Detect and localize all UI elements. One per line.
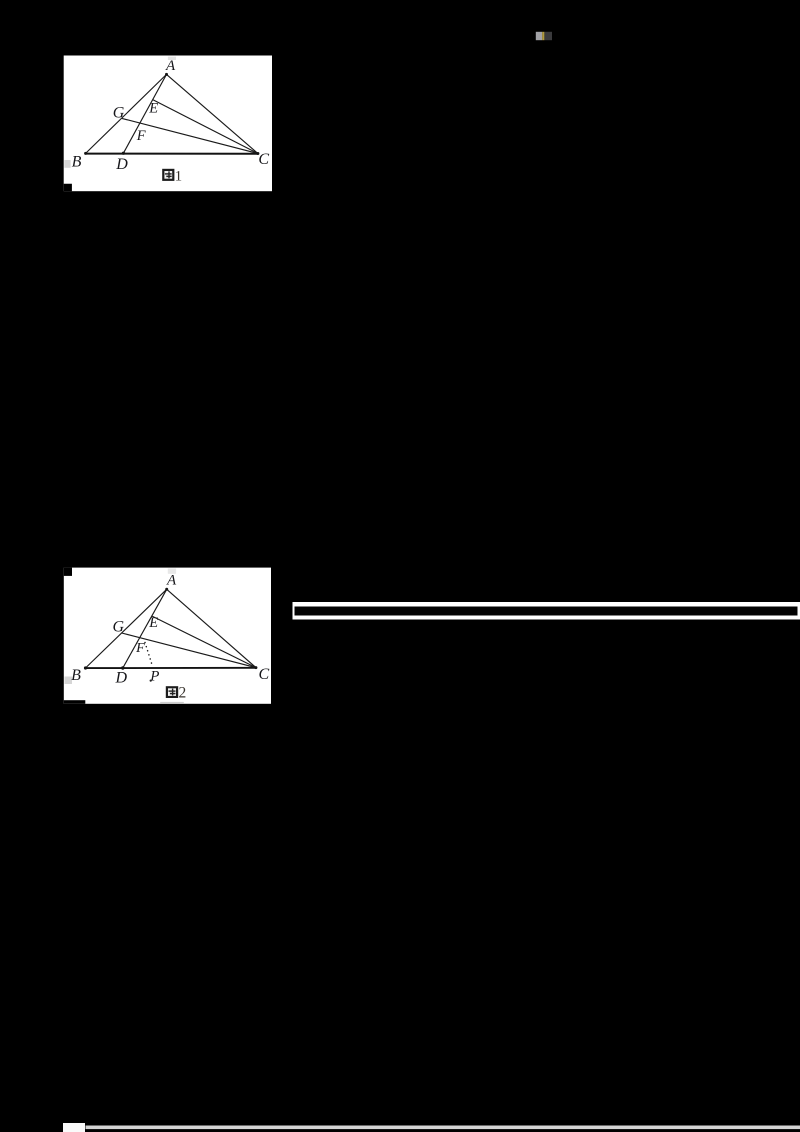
top-center small grey mark (dark half)	[544, 32, 552, 40]
triangle side AB (figure 1)	[86, 74, 167, 153]
vertex dot B (figure 1)	[84, 152, 87, 155]
svg-text:D: D	[115, 670, 128, 687]
svg-text:2: 2	[179, 685, 187, 702]
light grey square left of vertex B (figure 2)	[65, 677, 73, 685]
svg-text:P: P	[149, 669, 159, 685]
figure 1 white panel	[64, 56, 272, 192]
triangle side AC (figure 2)	[167, 589, 256, 667]
svg-text:G: G	[113, 104, 125, 121]
figure 2 panel top-left black notch	[64, 568, 72, 576]
light grey mark below top edge above vertex A (figure 2)	[168, 568, 176, 573]
light grey square left of vertex B (figure 1)	[64, 160, 70, 168]
triangle base BC (figure 2)	[86, 667, 256, 669]
svg-text:E: E	[148, 615, 158, 631]
svg-text:E: E	[148, 101, 158, 117]
vertex dot A (figure 1)	[165, 73, 168, 76]
svg-text:A: A	[166, 573, 177, 589]
caption glyph 图 (figure 2)	[166, 686, 178, 698]
vertex dot C (figure 2)	[254, 666, 257, 669]
svg-text:C: C	[258, 151, 269, 168]
figure 2 white panel	[64, 568, 271, 704]
bottom-left white square	[63, 1123, 85, 1132]
segment EC (figure 1)	[153, 100, 258, 154]
vertex dot A (figure 2)	[165, 588, 168, 591]
cevian AD (figure 2)	[123, 589, 167, 668]
svg-text:B: B	[71, 667, 81, 684]
svg-text:A: A	[165, 58, 176, 74]
vertex dot B (figure 2)	[84, 666, 87, 669]
cevian AD (figure 1)	[123, 74, 166, 153]
bottom thin white strip	[86, 1126, 800, 1130]
svg-text:D: D	[115, 156, 128, 173]
stray speck below label P (figure 2)	[150, 680, 152, 682]
triangle side AB (figure 2)	[86, 589, 167, 668]
svg-text:F: F	[135, 641, 145, 656]
segment EC (figure 2)	[152, 616, 256, 668]
svg-text:B: B	[72, 153, 82, 170]
segment GC (figure 1)	[122, 118, 258, 153]
dotted segment FP (figure 2)	[145, 643, 153, 667]
top-center small grey mark (yellow sliver)	[542, 32, 544, 40]
vertex dot C (figure 1)	[256, 152, 259, 155]
vertex dot D (figure 1)	[122, 152, 125, 155]
triangle base BC (figure 1)	[86, 153, 258, 155]
caption glyph 图 (figure 1)	[162, 169, 174, 181]
segment GC (figure 2)	[122, 633, 256, 668]
faint grey underline below caption (figure 2)	[160, 702, 184, 704]
black redaction stripe right of figure 2	[295, 607, 798, 616]
white margin band right of figure 2 panel	[293, 602, 800, 620]
vertex dot D (figure 2)	[121, 666, 124, 669]
triangle side AC (figure 1)	[167, 74, 258, 153]
svg-text:F: F	[136, 128, 146, 144]
light grey mark below top edge above vertex A (figure 1)	[168, 57, 176, 60]
figure 1 panel bottom-left black notch	[64, 184, 72, 192]
svg-text:C: C	[258, 666, 269, 683]
top-center small grey mark (light half)	[536, 32, 542, 40]
svg-text:1: 1	[175, 168, 183, 184]
figure 2 panel bottom-left black notch	[64, 700, 86, 704]
svg-text:G: G	[113, 619, 125, 636]
